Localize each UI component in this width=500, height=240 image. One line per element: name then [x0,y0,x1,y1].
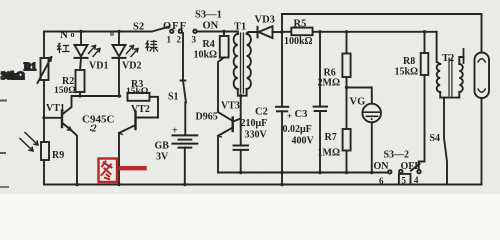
transistor VT3 (D965) [218,96,241,173]
wire left frame [43,32,45,185]
neon lamp VG [347,88,382,173]
wire top rail left [44,31,152,33]
label 绿 (green) [146,41,158,52]
wire R3 right to VT2 collector [137,97,159,118]
label N o [60,29,75,41]
resistor R3 [128,93,150,101]
figure label 图一 (red) [99,159,145,183]
resistor R2 [76,70,85,92]
switch S3-2 [388,164,421,185]
transformer T2 [437,32,464,138]
resistor R8 [419,32,429,170]
transistor VT1 [44,96,77,185]
resistor R5 [282,28,437,36]
capacitor C3 [314,32,327,173]
scan noise overlay [0,0,1,1]
wire bottom rail [44,184,482,186]
photoresistor R9 [41,142,49,160]
label 红 (red) [58,44,70,53]
switch S3-1 contact 3 [193,30,196,33]
switch S4 [444,138,447,185]
light arrows R9 [20,133,38,152]
node VD3 junction riser [281,14,283,32]
switch S1 [181,80,186,82]
capacitor C2 [276,32,288,185]
edge artifacts [0,101,8,188]
diode VD3 [258,26,283,38]
resistor R7 [343,129,351,151]
wire S3-1 to T1 [197,31,238,33]
LED VD1 [75,32,88,71]
capacitor C4 [234,146,249,173]
light arrows VD1 [89,46,101,57]
wire contact2 down to S1 [182,33,184,80]
switch S2 [152,27,182,33]
wire upper ground rail [218,172,388,174]
wire coupling VT1 collector row [72,95,120,97]
battery GB [173,103,198,185]
light arrows VD2 [127,46,139,57]
transformer T1 [234,32,257,96]
LED VD2 [113,32,126,97]
wire top rail right [282,14,482,53]
fluorescent lamp tube [475,53,490,185]
wire R2 bottom [79,92,81,96]
transistor VT2 [119,112,136,185]
resistor R6 [342,32,350,129]
resistor R1 [38,57,52,83]
resistor R4 [218,32,229,113]
